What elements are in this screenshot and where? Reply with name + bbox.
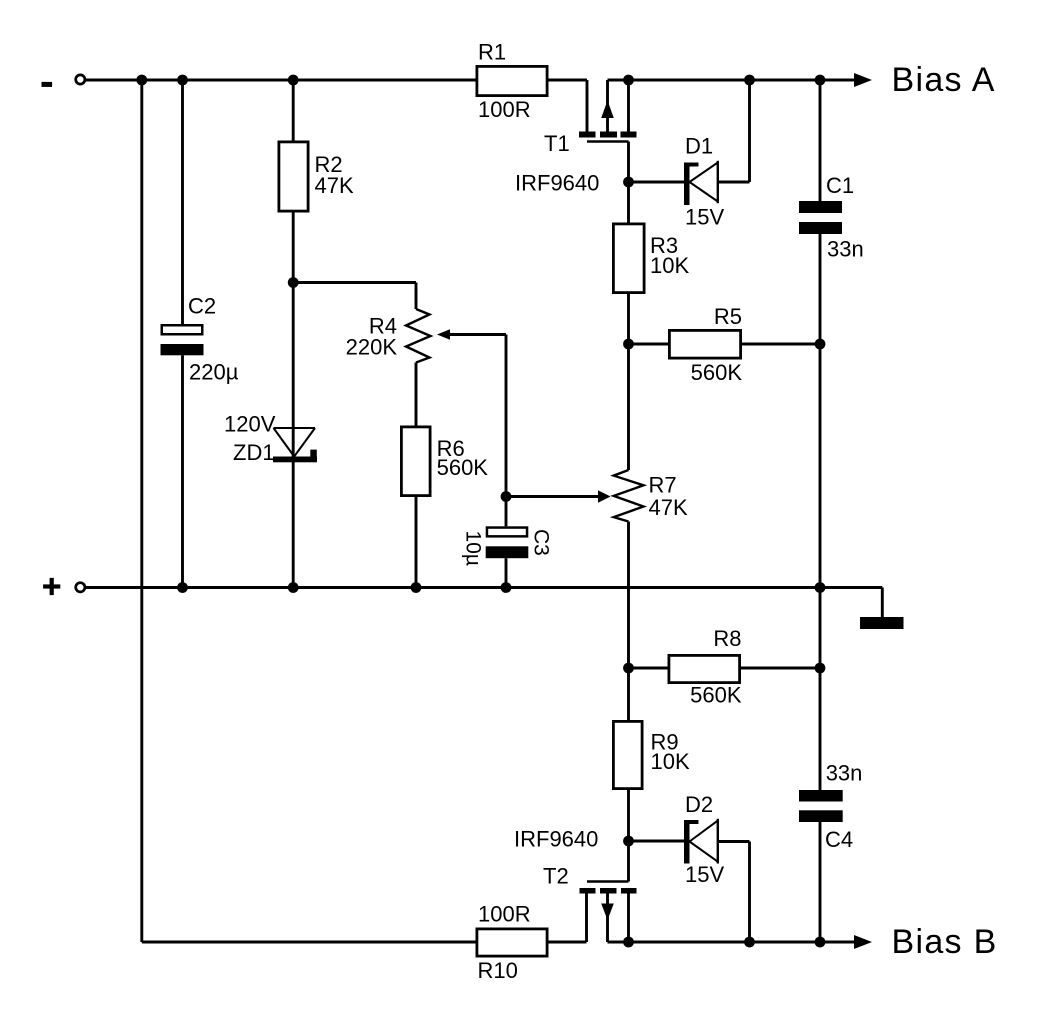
svg-text:C4: C4 bbox=[825, 827, 853, 852]
svg-text:560K: 560K bbox=[690, 683, 742, 708]
svg-text:ZD1: ZD1 bbox=[233, 440, 275, 465]
svg-text:C2: C2 bbox=[188, 293, 216, 318]
svg-text:15V: 15V bbox=[685, 862, 724, 887]
svg-text:560K: 560K bbox=[437, 455, 489, 480]
svg-text:100R: 100R bbox=[478, 97, 531, 122]
svg-text:33n: 33n bbox=[826, 761, 863, 786]
svg-text:10µ: 10µ bbox=[462, 531, 485, 566]
svg-text:15V: 15V bbox=[685, 205, 724, 230]
svg-text:10K: 10K bbox=[651, 749, 690, 774]
svg-text:R10: R10 bbox=[478, 958, 518, 983]
svg-text:10K: 10K bbox=[650, 253, 689, 278]
svg-text:T2: T2 bbox=[543, 864, 569, 889]
svg-text:C3: C3 bbox=[530, 529, 553, 556]
svg-text:33n: 33n bbox=[827, 237, 864, 262]
svg-text:47K: 47K bbox=[649, 495, 688, 520]
svg-text:T1: T1 bbox=[544, 131, 570, 156]
svg-text:220µ: 220µ bbox=[189, 360, 239, 385]
svg-text:Bias A: Bias A bbox=[892, 61, 996, 99]
svg-text:R8: R8 bbox=[713, 626, 741, 651]
svg-text:IRF9640: IRF9640 bbox=[514, 827, 598, 852]
svg-text:Bias B: Bias B bbox=[892, 923, 998, 961]
svg-text:R5: R5 bbox=[714, 304, 742, 329]
svg-text:47K: 47K bbox=[315, 173, 354, 198]
svg-text:220K: 220K bbox=[346, 335, 398, 360]
svg-text:IRF9640: IRF9640 bbox=[515, 171, 599, 196]
svg-text:560K: 560K bbox=[691, 360, 743, 385]
svg-text:D1: D1 bbox=[685, 134, 713, 159]
svg-text:100R: 100R bbox=[478, 902, 531, 927]
svg-text:120V: 120V bbox=[224, 412, 276, 437]
svg-text:C1: C1 bbox=[826, 173, 854, 198]
svg-text:D2: D2 bbox=[685, 792, 713, 817]
svg-text:R1: R1 bbox=[478, 40, 506, 65]
